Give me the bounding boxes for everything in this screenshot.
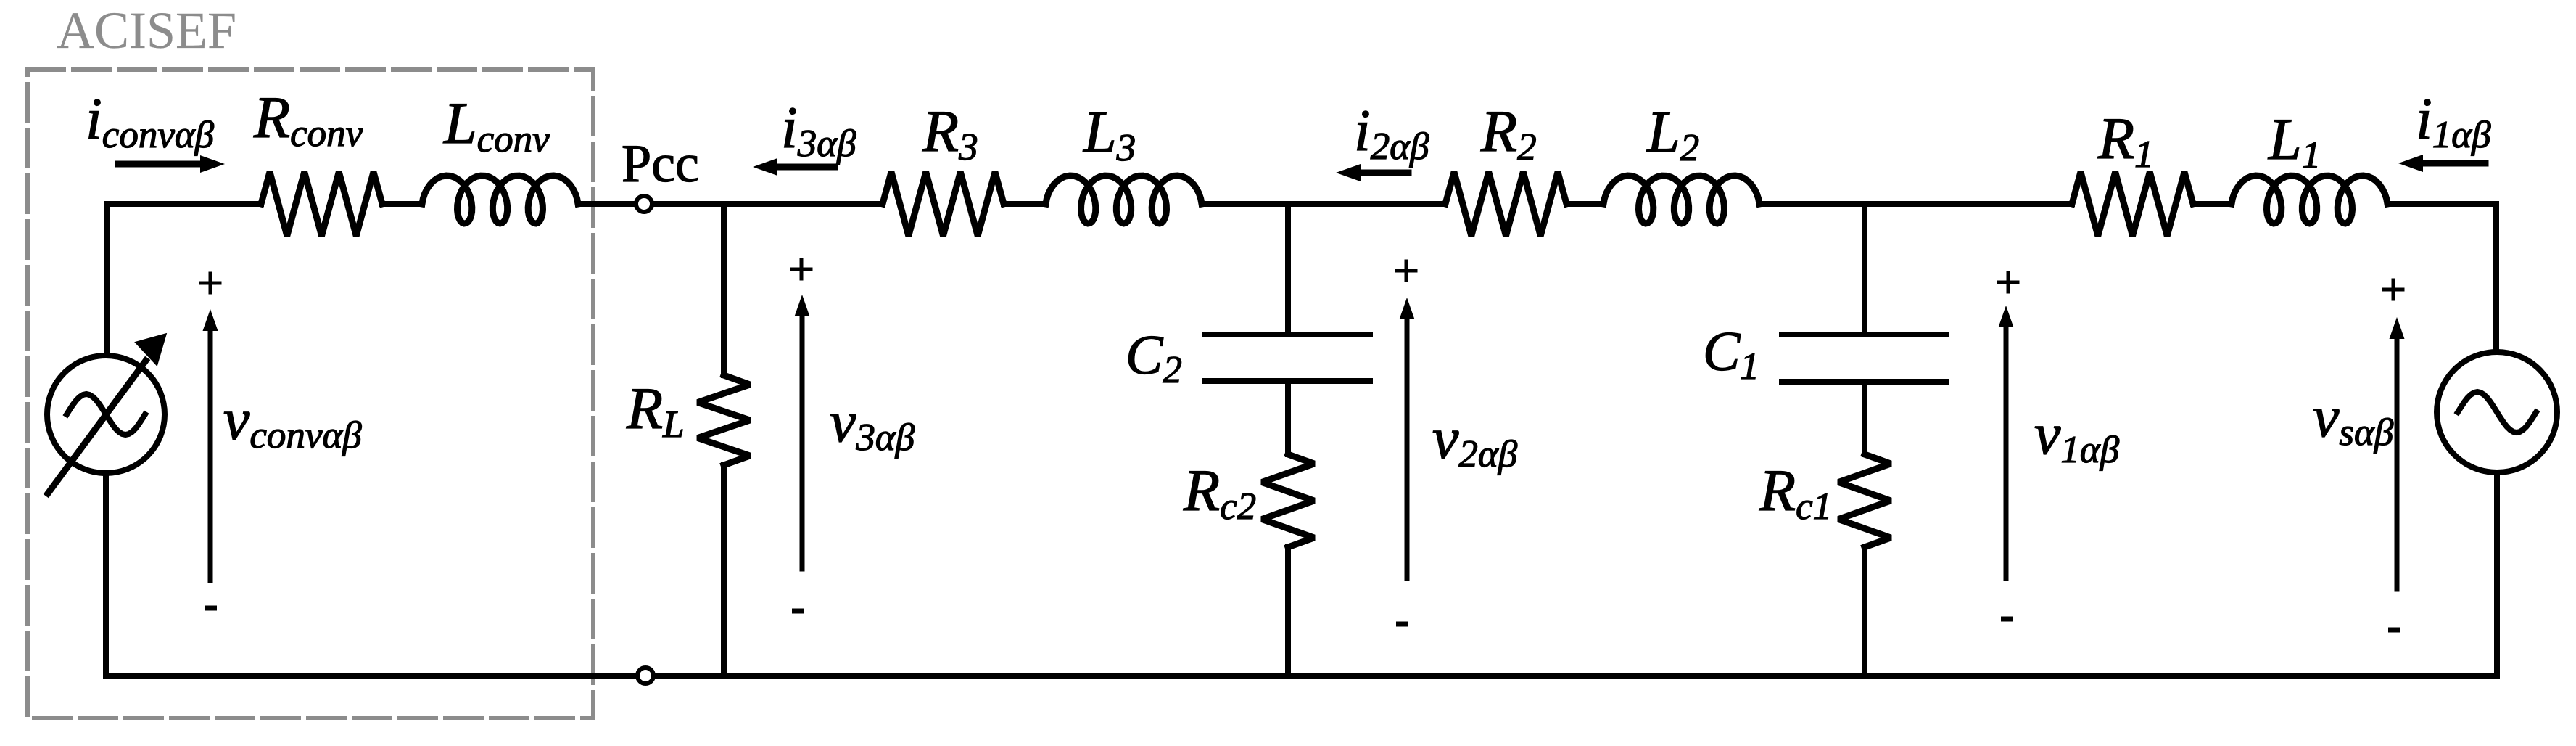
v_conv variable diagonal arrow shaft — [48, 361, 146, 493]
minus sign of v_convαβ — [205, 606, 217, 611]
resistor R_conv — [261, 172, 382, 236]
voltage arrow v_3αβ — [800, 316, 805, 569]
voltage arrow v_sαβ — [2395, 339, 2400, 589]
variable AC source v_conv circle — [47, 356, 165, 473]
wire: v_s source to bottom bus — [2494, 472, 2500, 676]
wire R_2 to L_2 — [1566, 201, 1603, 207]
minus sign of v_sαβ — [2388, 628, 2400, 633]
wire: R_L branch lower — [721, 465, 727, 676]
current arrow i_1αβ pointing left — [2423, 160, 2485, 167]
node Pcc bottom terminal — [637, 668, 653, 684]
wire: left corner + top bus to R_conv — [107, 204, 261, 356]
plus sign of v_convαβ — [199, 272, 222, 295]
minus sign of v_2αβ — [1396, 622, 1408, 627]
svg-text:ACISEF: ACISEF — [57, 1, 236, 60]
v_conv sine wave — [67, 394, 145, 435]
resistor R_c2 — [1262, 454, 1314, 547]
wire: C2 branch upper — [1285, 204, 1291, 335]
wire: C1 branch upper — [1862, 204, 1867, 335]
inductor L_conv — [422, 176, 578, 224]
wire: R_c2 to bottom bus — [1285, 547, 1291, 676]
inductor L_3 — [1046, 176, 1202, 224]
wire: v_conv source to bottom bus — [103, 473, 109, 676]
wire: R_L branch upper — [721, 204, 727, 375]
resistor R_c1 — [1838, 454, 1891, 547]
resistor R_1 — [2072, 172, 2193, 236]
resistor R_3 — [883, 172, 1004, 236]
AC source v_s circle — [2437, 352, 2557, 472]
node Pcc top terminal — [636, 196, 652, 212]
wire L_2 to R_1 through C1 node — [1759, 201, 2072, 207]
voltage arrow v_1αβ — [2004, 327, 2009, 578]
plus sign of v_3αβ — [790, 258, 813, 281]
wire: right vertical down to v_s source — [2493, 204, 2499, 352]
wire: C2 to R_c2 — [1285, 381, 1291, 454]
capacitor C2 top plate — [1205, 332, 1370, 337]
v_conv variable diagonal arrowhead — [136, 335, 165, 364]
wire: C1 to R_c1 — [1862, 382, 1867, 454]
plus sign of v_sαβ — [2382, 279, 2405, 301]
ACISEF dashed boundary box — [28, 70, 593, 718]
wire: R_c1 to bottom bus — [1862, 547, 1867, 676]
resistor R_L — [698, 375, 750, 465]
svg-text:Pcc: Pcc — [622, 134, 699, 194]
current arrow i_3αβ pointing left — [777, 164, 835, 171]
wire R_3 to L_3 — [1004, 201, 1046, 207]
minus sign of v_1αβ — [2001, 617, 2012, 622]
wire R_conv to L_conv — [382, 201, 422, 207]
voltage arrow v_convαβ — [208, 331, 213, 581]
current arrow i_convαβ pointing right — [118, 161, 200, 168]
wire R_1 to L_1 — [2193, 201, 2232, 207]
wire L_3 to R_2 through C2 node — [1202, 201, 1445, 207]
capacitor C2 bottom plate — [1205, 378, 1370, 384]
wire: bottom bus — [107, 673, 2497, 679]
inductor L_1 — [2232, 176, 2387, 224]
plus sign of v_1αβ — [1997, 271, 2020, 294]
resistor R_2 — [1445, 172, 1566, 236]
current arrow i_2αβ pointing left — [1361, 170, 1408, 176]
AC source v_s sine wave — [2458, 392, 2536, 433]
minus sign of v_3αβ — [792, 609, 804, 614]
plus sign of v_2αβ — [1395, 260, 1418, 282]
capacitor C1 bottom plate — [1782, 379, 1946, 385]
capacitor C1 top plate — [1782, 332, 1946, 337]
wire L_conv through Pcc node to R_3 — [578, 201, 883, 207]
voltage arrow v_2αβ — [1405, 319, 1410, 578]
wire L_1 to right corner — [2387, 201, 2496, 207]
inductor L_2 — [1603, 176, 1759, 224]
